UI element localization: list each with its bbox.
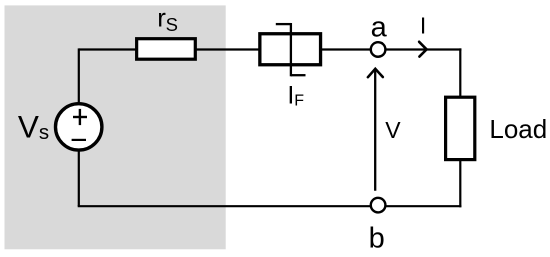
svg-text:F: F xyxy=(294,92,304,109)
svg-text:a: a xyxy=(371,11,388,43)
svg-text:Load: Load xyxy=(489,114,547,144)
svg-text:S: S xyxy=(166,14,178,35)
svg-text:s: s xyxy=(39,121,49,144)
svg-text:b: b xyxy=(369,223,385,255)
svg-text:V: V xyxy=(385,117,401,143)
svg-text:V: V xyxy=(18,109,39,145)
svg-text:I: I xyxy=(420,13,426,39)
